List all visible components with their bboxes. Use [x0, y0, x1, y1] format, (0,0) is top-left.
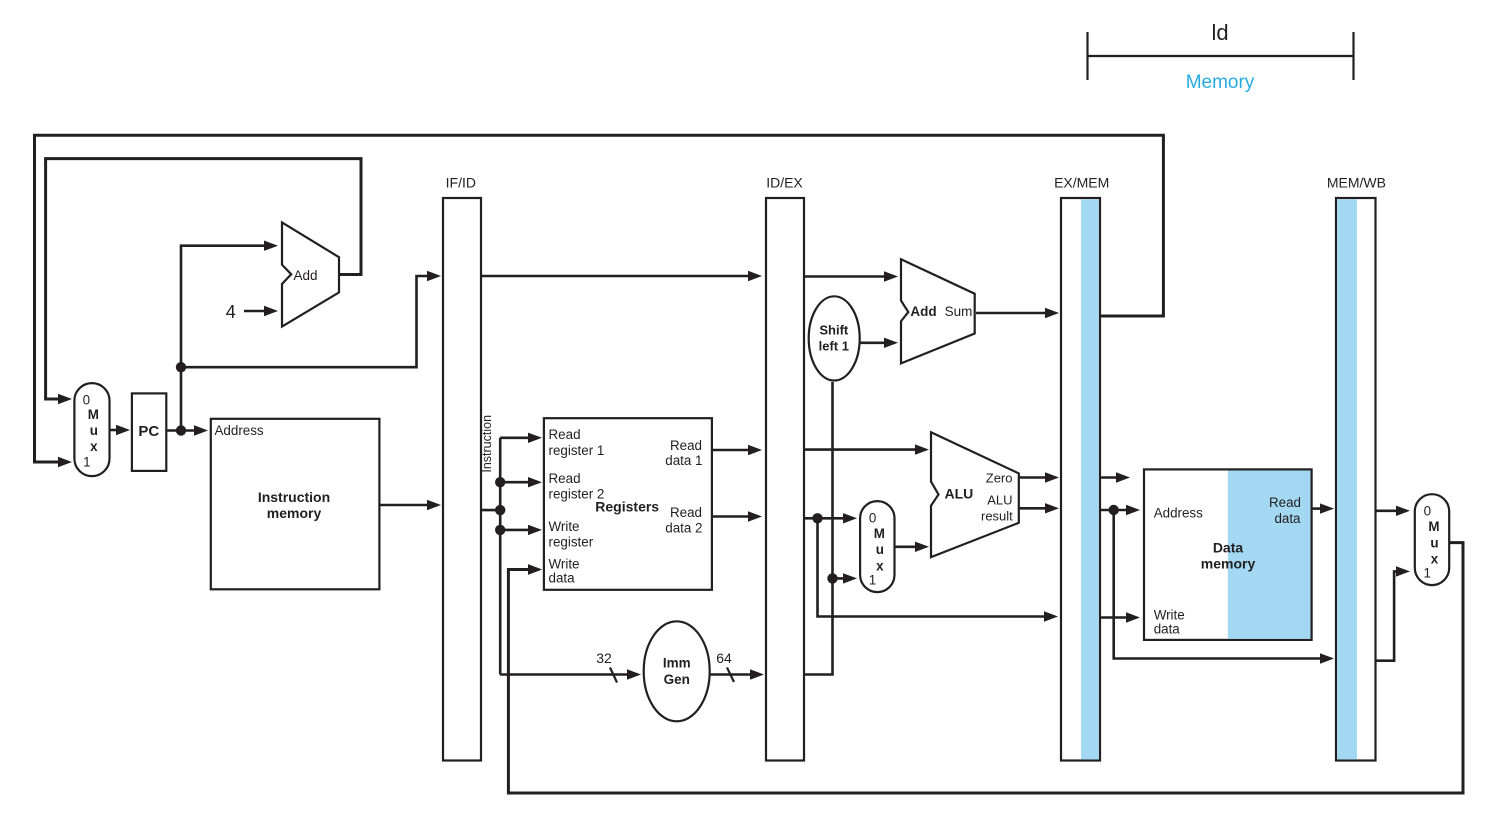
svg-text:Instruction: Instruction	[258, 489, 330, 505]
svg-text:data: data	[549, 571, 576, 586]
alu ALU	[931, 432, 1019, 557]
svg-text:0: 0	[1424, 504, 1431, 519]
node instruction junction main	[495, 505, 505, 515]
arrow Read data into MEM/WB	[1320, 503, 1334, 513]
wire EX/MEM write data to Data memory	[1100, 616, 1132, 619]
svg-text:Sum: Sum	[945, 304, 973, 319]
generator Imm Gen	[644, 621, 710, 721]
node instruction junction WR	[495, 525, 505, 535]
svg-text:Registers: Registers	[595, 499, 659, 515]
node PC output junction	[176, 425, 186, 435]
wire Read data 1 to ID/EX	[712, 449, 754, 452]
svg-text:left 1: left 1	[819, 338, 849, 353]
svg-text:u: u	[1430, 535, 1438, 550]
bus slash 32	[610, 668, 617, 683]
wire Read data 2 down to EX/MEM write data	[818, 518, 1051, 616]
pipeline register MEM/WB	[1327, 175, 1386, 761]
arrow into Add top	[264, 241, 278, 251]
svg-text:EX/MEM: EX/MEM	[1054, 175, 1109, 191]
pipeline register EX/MEM	[1054, 175, 1109, 761]
arrow write data into EX/MEM	[1044, 611, 1058, 621]
svg-text:0: 0	[83, 392, 90, 407]
wire Instruction memory output to IF/ID	[379, 504, 433, 507]
arrow Write register	[528, 525, 542, 535]
arrow Imm Gen into ID/EX	[750, 669, 764, 679]
svg-text:data: data	[1154, 622, 1181, 637]
wire Add Sum output to EX/MEM	[976, 312, 1051, 315]
wire Mux to PC	[110, 429, 122, 432]
svg-text:u: u	[90, 423, 98, 438]
wire to Read register 2	[500, 481, 534, 484]
arrow instruction into IF/ID	[427, 500, 441, 510]
svg-text:ALU: ALU	[945, 486, 974, 502]
svg-text:Write: Write	[1154, 607, 1185, 622]
svg-text:result: result	[981, 509, 1013, 524]
arrow into left Mux input 1	[58, 457, 72, 467]
mux ALU operand	[860, 501, 894, 592]
adder Add (PC+4)	[282, 222, 339, 326]
svg-text:Instruction: Instruction	[480, 415, 494, 473]
svg-text:64: 64	[716, 650, 732, 666]
svg-text:Shift: Shift	[819, 322, 849, 337]
arrow into Data memory Write data	[1126, 612, 1140, 622]
arrow PC+4 into ID/EX	[748, 271, 762, 281]
bus slash 64	[727, 668, 734, 683]
wire Read data 2 to ID/EX	[712, 515, 754, 518]
svg-text:ld: ld	[1211, 20, 1228, 45]
arrow Sum into EX/MEM	[1045, 308, 1059, 318]
svg-text:data 1: data 1	[665, 453, 702, 468]
arrow into Registers Write data (write-back)	[528, 564, 542, 574]
wire MEM/WB ALU result to right Mux input 1	[1376, 571, 1403, 660]
wire PC+4 IF/ID to ID/EX	[481, 275, 754, 278]
arrow ALU result bypass into MEM/WB	[1320, 653, 1334, 663]
mux write-back	[1415, 494, 1449, 585]
arrow Write data	[528, 564, 542, 574]
wire PC to Instruction memory Address	[166, 429, 199, 432]
arrow Read register 2	[528, 477, 542, 487]
arrow Read register 1	[528, 433, 542, 443]
svg-text:x: x	[90, 439, 98, 454]
wire write-back loop right Mux to Registers Write data	[508, 543, 1463, 793]
svg-text:memory: memory	[1201, 556, 1256, 572]
arrow into Imm Gen	[627, 669, 641, 679]
arrow into ALU top	[915, 444, 929, 454]
svg-text:Data: Data	[1213, 540, 1244, 556]
arrow into Add bottom (4)	[264, 306, 278, 316]
wire to Imm Gen	[500, 673, 633, 676]
arrow into ALU Mux input 1	[843, 573, 857, 583]
wire ID/EX to Add top input	[804, 275, 890, 278]
svg-text:Read: Read	[1269, 495, 1301, 510]
arrow Zero stub	[1116, 472, 1130, 482]
wire immediate tap to ALU Mux input 1	[833, 577, 850, 580]
svg-text:Read: Read	[549, 471, 581, 486]
wire PC+4 loop Add output to left Mux input 0	[46, 159, 361, 399]
wire immediate ID/EX up to Shift left 1	[804, 382, 833, 675]
pipeline register IF/ID	[443, 175, 481, 761]
node immediate junction	[827, 573, 837, 583]
arrow into Add2 top	[884, 271, 898, 281]
register PC	[132, 393, 166, 471]
svg-text:register: register	[549, 535, 594, 550]
svg-text:32: 32	[596, 650, 612, 666]
svg-text:Read: Read	[549, 427, 581, 442]
arrow into ALU bottom	[915, 542, 929, 552]
svg-text:PC: PC	[138, 423, 159, 440]
wire PC riser to Add top input	[181, 246, 269, 431]
block Data memory	[1144, 469, 1312, 640]
wire to Read register 1	[500, 436, 534, 439]
wire ALU Zero to EX/MEM	[1019, 476, 1051, 479]
wire ALU result bypass to MEM/WB	[1114, 510, 1326, 659]
svg-text:M: M	[88, 407, 99, 422]
arrow into right Mux input 0	[1396, 506, 1410, 516]
arrow Read data 2 into ID/EX	[748, 511, 762, 521]
svg-text:register 1: register 1	[549, 443, 605, 458]
arrow PC tap into IF/ID	[427, 271, 441, 281]
mux left (PC source)	[74, 383, 109, 476]
svg-text:Gen: Gen	[664, 672, 690, 687]
svg-text:1: 1	[1423, 566, 1430, 581]
node instruction junction RR2	[495, 477, 505, 487]
adder Add (branch target)	[901, 259, 975, 363]
arrow into Data memory Address	[1126, 505, 1140, 515]
wire MEM/WB Read data to right Mux input 0	[1376, 509, 1403, 512]
svg-text:4: 4	[226, 302, 236, 322]
wire ALU Mux output to ALU	[895, 545, 922, 548]
svg-text:Read: Read	[670, 438, 702, 453]
svg-text:Address: Address	[215, 423, 264, 438]
node Read data 2 junction	[812, 513, 822, 523]
svg-text:memory: memory	[267, 505, 322, 521]
arrow into left Mux input 0	[58, 394, 72, 404]
node PC tap junction	[176, 362, 186, 372]
svg-text:0: 0	[869, 510, 876, 525]
wire ALU result to EX/MEM	[1019, 507, 1051, 510]
svg-text:MEM/WB: MEM/WB	[1327, 175, 1386, 191]
svg-text:Read: Read	[670, 505, 702, 520]
wire to Write register	[500, 529, 534, 532]
arrow into Instruction memory Address	[194, 425, 208, 435]
arrow into right Mux input 1	[1396, 566, 1410, 576]
svg-text:data: data	[1274, 511, 1301, 526]
svg-text:ID/EX: ID/EX	[766, 175, 803, 191]
arrow into PC	[116, 425, 130, 435]
arrow ALU result into EX/MEM	[1045, 503, 1059, 513]
svg-text:1: 1	[83, 455, 90, 470]
wire branch-target loop EX/MEM to left Mux input 1	[35, 135, 1164, 462]
svg-text:Memory: Memory	[1186, 72, 1255, 93]
svg-text:ALU: ALU	[987, 493, 1012, 508]
shifter Shift left 1	[809, 296, 860, 380]
svg-text:IF/ID: IF/ID	[446, 175, 476, 191]
wire constant 4 into Add	[244, 310, 269, 313]
arrow into ALU Mux input 0	[843, 513, 857, 523]
svg-text:Add: Add	[294, 268, 318, 283]
wire EX/MEM Zero stub	[1100, 476, 1122, 479]
ld bracket annotation	[1087, 32, 1355, 80]
wire Read data 1 ID/EX to ALU	[804, 448, 921, 451]
arrow Read data 1 into ID/EX	[748, 445, 762, 455]
wire instruction from IF/ID with vertical distribution	[481, 509, 500, 512]
svg-text:Imm: Imm	[663, 656, 691, 671]
pipeline register ID/EX	[766, 175, 804, 761]
svg-text:Address: Address	[1154, 505, 1203, 520]
wire Imm Gen output to ID/EX	[710, 673, 756, 676]
svg-text:Zero: Zero	[986, 471, 1013, 486]
wire Shift left 1 to Add bottom input	[860, 341, 891, 344]
svg-text:M: M	[1428, 519, 1439, 534]
node ALU result junction	[1109, 505, 1119, 515]
svg-text:Add: Add	[910, 304, 936, 319]
svg-text:Write: Write	[549, 519, 580, 534]
svg-text:x: x	[1431, 552, 1439, 567]
block Instruction memory	[211, 419, 380, 590]
svg-text:1: 1	[869, 573, 876, 588]
svg-text:data 2: data 2	[665, 521, 702, 536]
block Registers	[544, 418, 712, 590]
wire PC tap to IF/ID	[181, 276, 433, 367]
arrow Zero into EX/MEM	[1045, 472, 1059, 482]
svg-text:u: u	[876, 542, 884, 557]
svg-text:Write: Write	[549, 557, 580, 572]
arrow into Add2 bottom	[884, 338, 898, 348]
wire Data memory Read data to MEM/WB	[1312, 507, 1326, 510]
svg-text:M: M	[874, 526, 885, 541]
wire Read data 2 ID/EX to ALU Mux input 0	[804, 517, 849, 520]
svg-text:x: x	[876, 558, 884, 573]
wire EX/MEM ALU result to Data memory Address	[1100, 509, 1132, 512]
